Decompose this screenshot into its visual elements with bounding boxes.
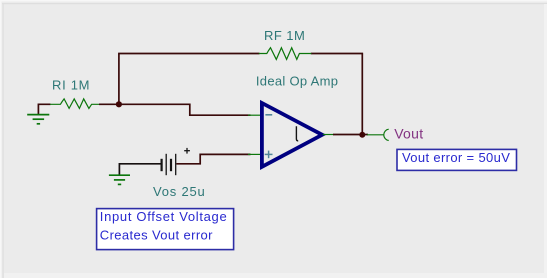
svg-text:Ideal Op Amp: Ideal Op Amp (256, 73, 338, 88)
pin stub: output terminal lead (367, 134, 384, 136)
wire: op-amp output to output node (333, 134, 362, 136)
value label Vos 25u (153, 184, 206, 199)
net label Vout (394, 125, 423, 141)
annotation box: Vout error = 50uV (397, 149, 517, 170)
wire: feedback net, top horizontal left of RF (118, 53, 259, 55)
wire: feedback net, right vertical down to output node (361, 54, 363, 135)
annotation box: Input Offset Voltage Creates Vout error (97, 209, 234, 250)
component label: Ideal Op Amp (256, 73, 338, 88)
node A junction dot (inverting input node) (116, 101, 122, 107)
op-amp U1 pin stub: output (323, 134, 334, 136)
value label RF 1M (264, 28, 305, 43)
wire: feedback net, top horizontal right of RF (311, 53, 363, 55)
battery source Vos 25u (162, 154, 176, 175)
svg-text:Creates Vout error: Creates Vout error (100, 227, 213, 242)
svg-text:RF 1M: RF 1M (264, 28, 305, 43)
resistor RF 1M (259, 48, 312, 60)
op-amp U1 pin stub: inverting input (248, 114, 261, 116)
value label RI 1M (52, 78, 90, 93)
output node junction dot (359, 132, 365, 138)
wire: output node to terminal (362, 134, 368, 136)
op-amp U1 (ideal op amp) (262, 103, 322, 167)
output terminal Vout (open connector arc) (384, 129, 389, 140)
wire: RI to node A (99, 103, 119, 105)
battery plus sign (184, 148, 190, 154)
wire: from ground G2 up to battery net (119, 164, 162, 175)
svg-text:Vout error = 50uV: Vout error = 50uV (402, 150, 510, 165)
wire: node A to op-amp inverting input (119, 104, 251, 115)
svg-text:Vout: Vout (394, 125, 423, 141)
resistor RI 1M (50, 99, 100, 109)
ground G2 (offset source ground) (109, 175, 130, 184)
svg-text:Vos 25u: Vos 25u (153, 184, 206, 199)
ground G1 (input ground) (27, 115, 49, 124)
wire: battery positive to op-amp non-inverting input (176, 154, 250, 163)
svg-text:RI 1M: RI 1M (52, 78, 90, 93)
op-amp U1 pin stub: non-inverting input (248, 153, 261, 155)
wire: from ground G1 to resistor RI (38, 104, 50, 114)
wire: feedback net, left vertical from node A up (118, 54, 120, 105)
svg-text:Input Offset Voltage: Input Offset Voltage (100, 209, 228, 224)
